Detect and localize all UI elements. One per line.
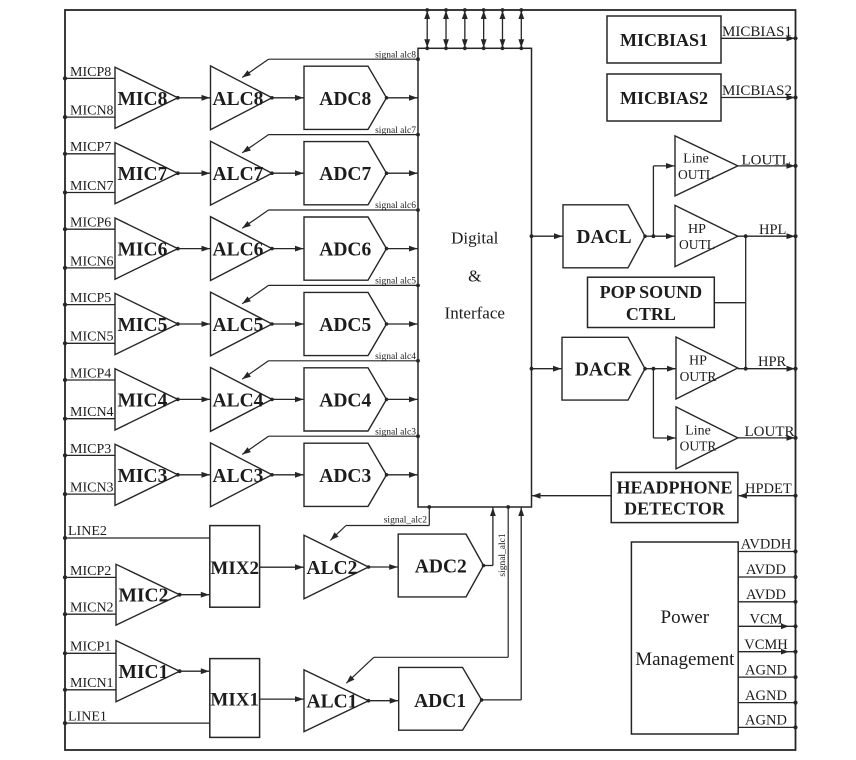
svg-text:OUTL: OUTL bbox=[679, 237, 715, 252]
svg-text:MIC7: MIC7 bbox=[118, 164, 168, 185]
svg-text:MIC4: MIC4 bbox=[118, 390, 168, 411]
svg-text:ADC5: ADC5 bbox=[319, 315, 371, 336]
svg-text:ADC8: ADC8 bbox=[319, 89, 371, 110]
svg-text:MICBIAS1: MICBIAS1 bbox=[722, 24, 792, 40]
svg-text:ADC7: ADC7 bbox=[319, 164, 371, 185]
svg-text:&: & bbox=[468, 267, 481, 286]
svg-text:VCMH: VCMH bbox=[744, 637, 788, 653]
svg-text:LINE2: LINE2 bbox=[68, 524, 107, 539]
svg-text:MIC2: MIC2 bbox=[119, 586, 169, 607]
svg-text:ALC6: ALC6 bbox=[213, 240, 264, 261]
svg-text:ALC8: ALC8 bbox=[213, 89, 264, 110]
svg-text:MICN2: MICN2 bbox=[70, 601, 114, 616]
svg-text:ALC1: ALC1 bbox=[307, 692, 358, 713]
svg-text:MICN1: MICN1 bbox=[70, 676, 114, 691]
svg-text:MICP1: MICP1 bbox=[70, 640, 111, 655]
svg-text:AVDDH: AVDDH bbox=[741, 537, 792, 553]
svg-text:VCM: VCM bbox=[749, 612, 782, 628]
svg-text:signal_alc1: signal_alc1 bbox=[498, 533, 508, 577]
svg-text:signal alc8: signal alc8 bbox=[375, 50, 416, 60]
svg-text:LOUTL: LOUTL bbox=[742, 153, 791, 169]
svg-text:ADC2: ADC2 bbox=[415, 557, 467, 578]
svg-text:HPR: HPR bbox=[758, 354, 787, 370]
svg-text:MICP8: MICP8 bbox=[70, 65, 111, 80]
svg-text:MIC6: MIC6 bbox=[118, 240, 168, 261]
svg-text:ALC2: ALC2 bbox=[307, 558, 358, 579]
svg-text:MICN7: MICN7 bbox=[70, 179, 114, 194]
svg-text:MICN5: MICN5 bbox=[70, 330, 114, 345]
svg-text:signal_alc2: signal_alc2 bbox=[384, 516, 428, 526]
svg-text:LOUTR: LOUTR bbox=[745, 424, 795, 440]
svg-text:MICN3: MICN3 bbox=[70, 481, 114, 496]
svg-text:ALC3: ALC3 bbox=[213, 466, 264, 487]
svg-text:OUTL: OUTL bbox=[678, 167, 714, 182]
svg-text:MICP3: MICP3 bbox=[70, 442, 111, 457]
svg-text:Line: Line bbox=[685, 424, 711, 439]
svg-text:OUTR: OUTR bbox=[680, 439, 717, 454]
svg-text:MIX2: MIX2 bbox=[210, 558, 259, 579]
svg-text:DETECTOR: DETECTOR bbox=[624, 499, 726, 519]
svg-text:AVDD: AVDD bbox=[746, 587, 786, 603]
svg-text:OUTR: OUTR bbox=[680, 369, 717, 384]
svg-text:DACR: DACR bbox=[575, 360, 632, 381]
svg-text:signal alc5: signal alc5 bbox=[375, 277, 416, 287]
svg-text:MICN6: MICN6 bbox=[70, 254, 114, 269]
svg-text:Power: Power bbox=[661, 607, 710, 628]
svg-text:HPL: HPL bbox=[759, 222, 786, 238]
svg-text:MICP7: MICP7 bbox=[70, 140, 111, 155]
svg-text:POP SOUND: POP SOUND bbox=[600, 282, 703, 302]
svg-text:MICP5: MICP5 bbox=[70, 291, 111, 306]
svg-text:DACL: DACL bbox=[576, 227, 631, 248]
svg-text:ADC1: ADC1 bbox=[414, 691, 466, 712]
svg-text:MIC3: MIC3 bbox=[118, 466, 168, 487]
svg-text:MIX1: MIX1 bbox=[210, 690, 259, 711]
svg-text:MICN8: MICN8 bbox=[70, 104, 114, 119]
svg-text:MICBIAS1: MICBIAS1 bbox=[620, 30, 708, 50]
svg-text:MIC5: MIC5 bbox=[118, 315, 168, 336]
svg-text:LINE1: LINE1 bbox=[68, 709, 107, 724]
svg-text:signal alc6: signal alc6 bbox=[375, 201, 416, 211]
svg-text:ADC3: ADC3 bbox=[319, 466, 371, 487]
svg-text:HPDET: HPDET bbox=[745, 481, 792, 497]
svg-text:Line: Line bbox=[683, 152, 709, 167]
svg-text:AGND: AGND bbox=[745, 688, 787, 704]
svg-text:Digital: Digital bbox=[451, 229, 498, 248]
svg-text:AVDD: AVDD bbox=[746, 562, 786, 578]
svg-text:ALC5: ALC5 bbox=[213, 315, 264, 336]
svg-text:MICBIAS2: MICBIAS2 bbox=[722, 83, 792, 99]
svg-text:MIC1: MIC1 bbox=[119, 662, 169, 683]
svg-text:MICP4: MICP4 bbox=[70, 366, 111, 381]
svg-text:signal alc4: signal alc4 bbox=[375, 352, 416, 362]
svg-text:AGND: AGND bbox=[745, 662, 787, 678]
svg-text:ADC4: ADC4 bbox=[319, 390, 371, 411]
svg-text:MICP2: MICP2 bbox=[70, 564, 111, 579]
svg-text:MICBIAS2: MICBIAS2 bbox=[620, 88, 708, 108]
svg-text:ALC7: ALC7 bbox=[213, 164, 264, 185]
svg-text:AGND: AGND bbox=[745, 713, 787, 729]
svg-text:signal alc3: signal alc3 bbox=[375, 427, 416, 437]
svg-text:ALC4: ALC4 bbox=[213, 390, 264, 411]
svg-text:HEADPHONE: HEADPHONE bbox=[616, 478, 732, 498]
svg-text:MICN4: MICN4 bbox=[70, 405, 114, 420]
svg-text:Interface: Interface bbox=[445, 304, 505, 323]
svg-text:HP: HP bbox=[688, 222, 706, 237]
svg-text:signal alc7: signal alc7 bbox=[375, 126, 416, 136]
svg-text:MIC8: MIC8 bbox=[118, 89, 168, 110]
svg-text:HP: HP bbox=[689, 354, 707, 369]
svg-text:Management: Management bbox=[635, 649, 735, 670]
svg-text:MICP6: MICP6 bbox=[70, 216, 111, 231]
svg-text:CTRL: CTRL bbox=[626, 304, 676, 324]
svg-text:ADC6: ADC6 bbox=[319, 240, 371, 261]
